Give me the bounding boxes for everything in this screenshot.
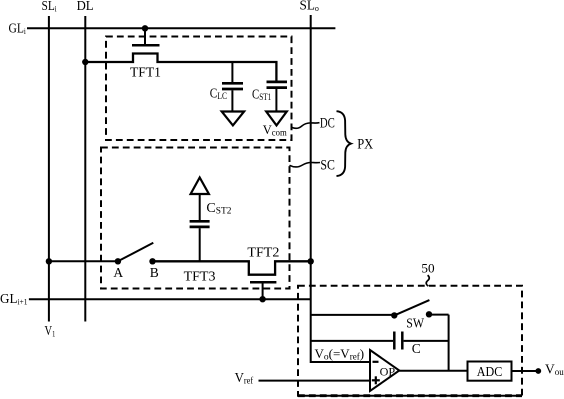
svg-text:PX: PX xyxy=(357,136,373,152)
block ADC xyxy=(468,362,512,381)
wire SLo down to op-amp inverting input xyxy=(311,15,370,362)
svg-text:GLi: GLi xyxy=(9,21,27,36)
leader squiggle to DC xyxy=(292,123,320,129)
capacitor CLC xyxy=(222,62,243,112)
wire SW right to feedback rail xyxy=(429,314,449,316)
capacitor CST1 xyxy=(267,82,288,112)
dashed box SC (pixel sensing circuit) xyxy=(101,148,290,289)
junction dot DL to TFT1 xyxy=(82,59,88,65)
wire SLi xyxy=(48,16,50,322)
ground triangle Vcom under CST1 xyxy=(266,112,287,126)
transistor TFT2 xyxy=(153,261,311,299)
junction dot TFT1 gate on GLi xyxy=(142,25,148,31)
ground triangle under CLC xyxy=(222,112,244,126)
svg-text:SLo: SLo xyxy=(300,0,319,14)
wire SLi to switch node A xyxy=(49,260,118,262)
svg-text:SC: SC xyxy=(320,157,335,173)
op-amp plus sign xyxy=(372,379,380,381)
capacitor C left wire xyxy=(311,340,393,342)
leader squiggle under 50 xyxy=(426,275,429,286)
capacitor C plates xyxy=(393,332,396,350)
op-amp OP xyxy=(370,350,399,391)
junction dot TFT2 gate on GLi+1 xyxy=(259,296,265,302)
op-amp minus sign xyxy=(373,361,379,363)
wire GLi+1 xyxy=(29,298,311,300)
ground triangle above CST2 xyxy=(191,178,209,195)
wire op-amp output to ADC xyxy=(399,370,467,372)
svg-text:SW: SW xyxy=(406,316,424,331)
wire DL xyxy=(84,16,86,322)
node B dot xyxy=(149,258,155,264)
wire Vref to op-amp + input xyxy=(259,380,371,382)
wire ADC to Vout xyxy=(512,370,537,372)
junction dot TFT2 drain on SLo xyxy=(308,258,314,264)
brace grouping DC and SC xyxy=(337,111,351,176)
feedback rail down to output xyxy=(448,315,450,371)
node Vout dot xyxy=(535,368,541,374)
svg-text:OP: OP xyxy=(380,364,396,378)
junction dot on SLi xyxy=(46,258,52,264)
svg-text:TFT2: TFT2 xyxy=(247,244,279,259)
svg-text:B: B xyxy=(150,265,159,280)
wire GLi xyxy=(27,27,335,29)
svg-text:50: 50 xyxy=(421,260,434,275)
dashed box 50 bottom edge emphasis xyxy=(298,394,522,397)
switch SW blade xyxy=(394,300,429,315)
svg-text:DL: DL xyxy=(77,0,94,14)
svg-text:TFT1: TFT1 xyxy=(130,64,161,79)
wire to switch SW xyxy=(311,314,395,316)
node A dot xyxy=(115,258,121,264)
svg-text:A: A xyxy=(113,265,123,280)
svg-text:TFT3: TFT3 xyxy=(184,269,216,284)
svg-text:C: C xyxy=(412,342,421,357)
svg-text:ADC: ADC xyxy=(477,364,503,379)
switch SW right dot xyxy=(426,311,432,317)
switch SW left dot xyxy=(391,312,397,318)
transistor TFT1 xyxy=(85,28,276,82)
switch TFT3 blade xyxy=(118,243,153,261)
capacitor CST2 xyxy=(190,194,210,261)
dashed box 50 (readout circuit) xyxy=(298,286,522,396)
capacitor C right wire xyxy=(404,340,449,342)
leader squiggle to SC xyxy=(290,162,321,167)
dashed box DC (pixel display circuit) xyxy=(106,37,292,141)
svg-text:DC: DC xyxy=(320,115,335,131)
